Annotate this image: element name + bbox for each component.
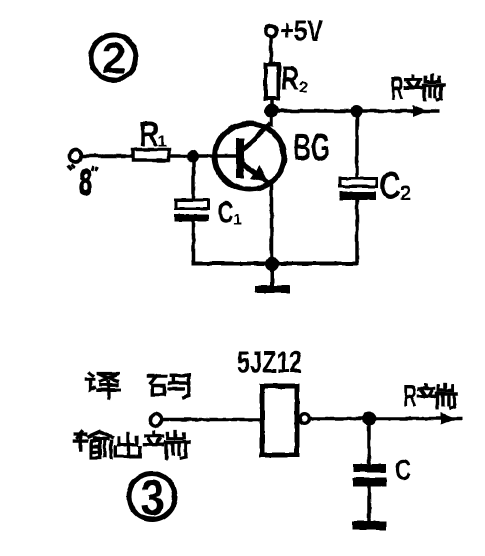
wire terminal to filter — [162, 418, 260, 422]
wire filter to output node — [310, 417, 462, 421]
svg-text:R: R — [403, 378, 417, 413]
svg-text:8: 8 — [79, 162, 92, 203]
terminal +5V — [266, 26, 277, 37]
wire node to capacitor C — [367, 419, 371, 466]
node base junction — [187, 151, 199, 163]
terminal input "8" — [70, 150, 82, 162]
resistor R2 — [266, 65, 279, 99]
terminal decoder output — [150, 414, 162, 426]
wire output top with arrowhead — [271, 105, 440, 117]
filter 5JZ12 — [262, 386, 297, 455]
ground — [255, 264, 290, 293]
svg-text:BG: BG — [293, 127, 330, 169]
svg-text:R: R — [139, 115, 159, 154]
wire collector vertical — [270, 108, 274, 127]
label R端 top — [390, 70, 444, 107]
svg-text:2: 2 — [102, 34, 126, 83]
wire base node down to C1 — [192, 156, 196, 200]
ground bottom — [352, 521, 387, 530]
ground rail wire — [192, 262, 360, 266]
svg-text:2: 2 — [400, 183, 411, 205]
capacitor C2 — [340, 179, 377, 201]
label C1 — [218, 195, 242, 230]
svg-text:C: C — [395, 455, 411, 487]
svg-text:3: 3 — [141, 470, 165, 526]
wire C2 to ground rail — [355, 200, 359, 265]
label 出 — [116, 433, 140, 456]
label R1 — [139, 115, 167, 154]
capacitor C — [353, 464, 386, 487]
wire +5V to R2 — [269, 37, 273, 66]
wire input to R1 — [82, 154, 134, 158]
svg-text:C: C — [218, 195, 234, 230]
node ground junction — [265, 257, 279, 271]
capacitor C1 — [175, 200, 209, 222]
label R2 — [281, 60, 308, 98]
wire C1 to ground rail — [192, 221, 196, 265]
label R端 bottom — [403, 378, 457, 413]
svg-text:1: 1 — [158, 134, 167, 151]
svg-text:R: R — [281, 60, 299, 98]
wire R2 to collector node — [270, 98, 274, 108]
label 码 — [148, 375, 189, 397]
label 输 — [74, 432, 112, 458]
resistor R1 — [133, 150, 169, 161]
terminal filter output — [300, 414, 310, 424]
svg-text:+5V: +5V — [280, 16, 324, 48]
node C2 junction — [350, 105, 363, 118]
svg-text:R: R — [390, 70, 404, 107]
circled number 2 — [91, 34, 136, 83]
svg-text:C: C — [380, 166, 401, 208]
label "8" — [68, 162, 98, 203]
node collector junction — [265, 104, 279, 118]
label 端 bottom-left — [144, 432, 188, 459]
circled number 3 — [129, 470, 175, 526]
label 译 — [86, 373, 119, 398]
arrowhead output bottom — [441, 413, 456, 425]
label C2 — [380, 166, 412, 208]
svg-text:2: 2 — [299, 80, 308, 97]
svg-text:1: 1 — [233, 212, 241, 229]
wire emitter to ground rail — [270, 183, 274, 265]
wire C to ground — [367, 486, 371, 522]
transistor BG — [215, 124, 284, 190]
wire R1 to base node — [169, 154, 237, 158]
node output junction — [362, 412, 376, 426]
wire node to C2 — [355, 111, 359, 179]
svg-text:5JZ12: 5JZ12 — [237, 345, 302, 380]
